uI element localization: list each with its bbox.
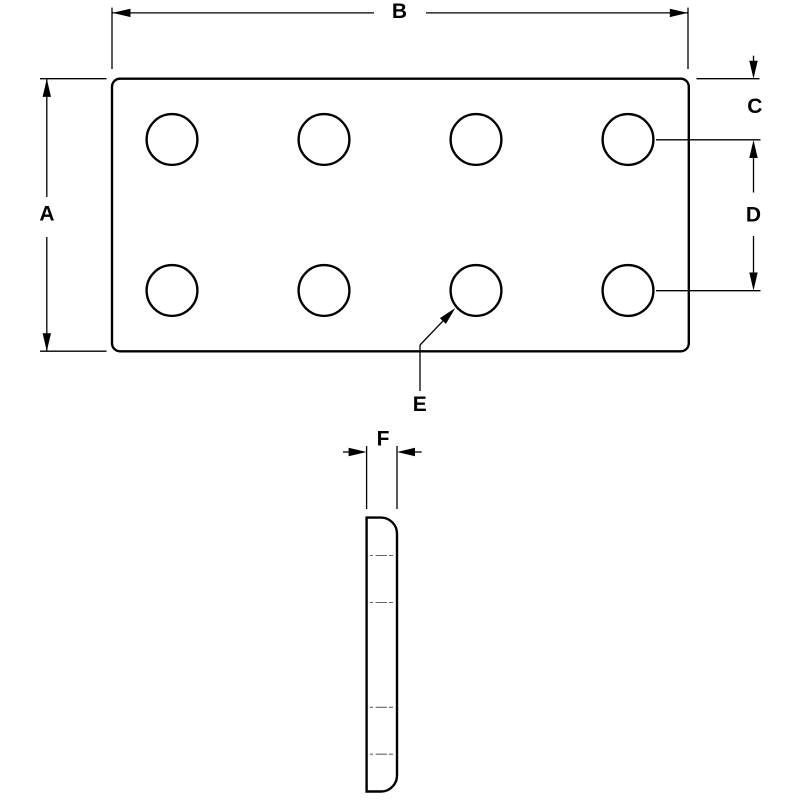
dimension F arrow right (points left) [412, 451, 422, 453]
svg-text:D: D [746, 204, 761, 227]
dimension B line left segment [113, 12, 375, 14]
hole row1 col4 [603, 114, 654, 165]
svg-text:A: A [39, 203, 54, 226]
svg-text:E: E [413, 393, 427, 416]
dimension F arrow left (points right) [343, 451, 352, 453]
hidden line hole row1 top [370, 555, 393, 557]
hole row2 col2 [299, 265, 350, 316]
dimension A line upper segment [46, 79, 48, 197]
dimension B arrowhead left [113, 9, 131, 17]
hidden line hole row2 bottom [370, 753, 393, 755]
object line from hole row2 right [656, 290, 761, 292]
hidden line hole row1 bottom [370, 602, 393, 604]
dimension A extension line top [40, 78, 107, 80]
dimension A extension line bottom [40, 350, 107, 352]
dimension C extension line at plate top edge [697, 78, 760, 80]
hole row1 col3 [451, 114, 502, 165]
hole row1 col1 [147, 114, 198, 165]
dimension B line right segment [426, 12, 688, 14]
leader E diagonal segment [420, 318, 446, 345]
dimension C arrow down (above top edge) [753, 56, 755, 64]
svg-text:F: F [377, 428, 390, 451]
dimension F extension line left [366, 446, 368, 509]
hole row1 col2 [299, 114, 350, 165]
dimension D arrow down (tip at row2 line) [753, 236, 755, 273]
leader E arrowhead [440, 308, 455, 324]
dimension A arrowhead bottom [43, 333, 51, 351]
svg-text:C: C [747, 95, 762, 118]
hole row2 col3 [451, 265, 502, 316]
dimension B extension line left [111, 8, 113, 69]
dimension D arrow up (tip at row1 line) [753, 158, 755, 193]
svg-text:B: B [392, 0, 407, 23]
leader E vertical segment [419, 345, 421, 391]
hidden line hole row2 top [370, 706, 393, 708]
plate side view outline [367, 518, 397, 792]
dimension A arrowhead top [43, 79, 51, 97]
hole row2 col1 [147, 265, 198, 316]
plate outline (top view) [112, 79, 689, 352]
hole row2 col4 [603, 265, 654, 316]
dimension F extension line right [396, 446, 398, 509]
dimension B extension line right [687, 8, 689, 69]
dimension A line lower segment [46, 237, 48, 351]
object line from hole row1 right [656, 139, 761, 141]
dimension B arrowhead right [670, 9, 688, 17]
